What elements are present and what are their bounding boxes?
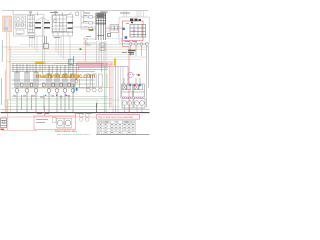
svg-text:Hyd oil tank return line schem: Hyd oil tank return line schematic [98,116,134,119]
svg-text:Swivel device assy: Swivel device assy [55,129,77,133]
svg-text:able of machine to operate dev: able of machine to operate device [57,133,91,136]
